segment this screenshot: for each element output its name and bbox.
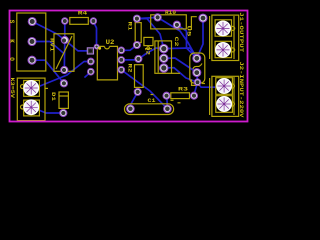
svg-text:R10: R10 [165,10,176,16]
svg-text:K: K [8,39,15,43]
svg-text:J1-OUTPUT: J1-OUTPUT [238,12,244,52]
svg-text:K3=5V: K3=5V [9,78,15,99]
svg-text:C1: C1 [148,98,156,104]
svg-text:S: S [8,20,15,24]
svg-text:U2: U2 [106,39,115,46]
svg-text:R3: R3 [178,86,188,92]
svg-text:R2: R2 [127,64,133,73]
svg-text:Q2: Q2 [144,46,150,55]
svg-text:C2: C2 [173,37,179,47]
svg-text:R4: R4 [78,10,87,16]
svg-text:U5: U5 [186,26,192,37]
svg-text:D1: D1 [50,92,56,101]
svg-text:O: O [8,57,15,61]
svg-text:J2-INPUT-220V: J2-INPUT-220V [238,62,244,118]
svg-text:R1: R1 [126,22,132,31]
svg-text:RV1: RV1 [48,38,54,52]
